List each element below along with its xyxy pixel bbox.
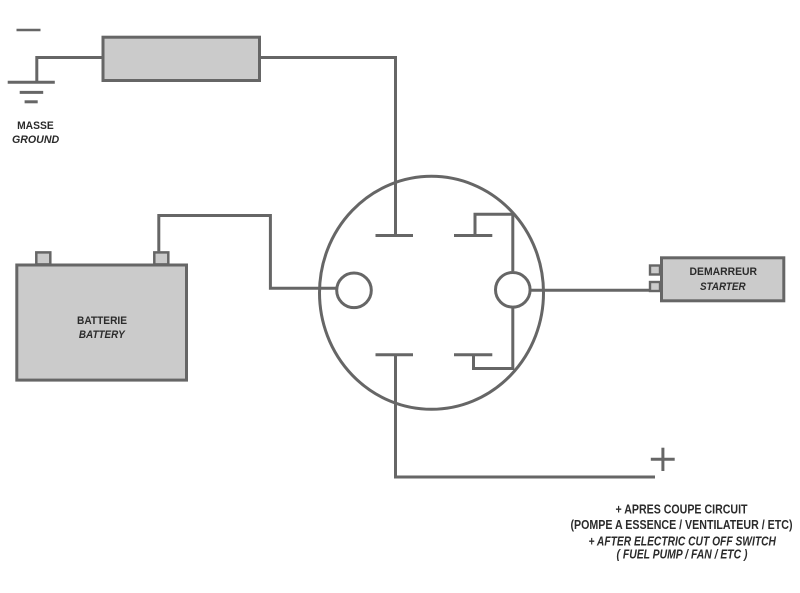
svg-text:STARTER: STARTER <box>700 281 746 293</box>
switch SW1 body (circular battery cut-off switch) <box>320 176 544 409</box>
svg-text:MASSE: MASSE <box>17 120 54 132</box>
svg-text:+ APRES COUPE CIRCUIT: + APRES COUPE CIRCUIT <box>616 502 748 516</box>
label: + APRES COUPE CIRCUIT block <box>571 502 793 561</box>
starter M1 body <box>662 258 784 301</box>
svg-text:BATTERY: BATTERY <box>79 329 126 341</box>
battery negative terminal <box>36 252 50 264</box>
svg-text:( FUEL PUMP / FAN / ETC ): ( FUEL PUMP / FAN / ETC ) <box>617 547 748 561</box>
wire: battery positive to switch left post <box>159 216 337 289</box>
battery positive terminal <box>154 252 168 264</box>
fuse block <box>103 37 260 80</box>
switch right post <box>496 273 531 308</box>
label MASSE / GROUND <box>12 120 59 146</box>
label DEMARREUR / STARTER <box>690 266 758 293</box>
svg-text:DEMARREUR: DEMARREUR <box>690 266 758 278</box>
ground symbol <box>8 82 55 102</box>
switch terminal: top-right prong linked to right post <box>454 214 513 271</box>
wire: fuse block to switch top-left terminal <box>259 58 396 235</box>
wire: switch bottom-left terminal to + output <box>396 355 656 477</box>
svg-text:(POMPE A ESSENCE / VENTILATEUR: (POMPE A ESSENCE / VENTILATEUR / ETC) <box>571 518 793 532</box>
label BATTERIE / BATTERY <box>77 315 127 341</box>
switch terminal: bottom-left prong bar <box>376 353 414 356</box>
svg-text:GROUND: GROUND <box>12 134 59 146</box>
svg-text:+ AFTER ELECTRIC CUT OFF SWITC: + AFTER ELECTRIC CUT OFF SWITCH <box>588 535 776 549</box>
svg-text:BATTERIE: BATTERIE <box>77 315 127 327</box>
starter terminal upper <box>650 266 660 275</box>
minus sign label above ground wire <box>17 29 41 32</box>
switch terminal: top-left prong bar <box>376 234 414 237</box>
switch left post <box>337 273 372 308</box>
plus symbol (+ output node) <box>651 448 675 471</box>
wire: ground to fuse block <box>37 58 103 83</box>
battery BAT1 body <box>17 265 187 380</box>
starter terminal lower <box>650 282 660 291</box>
wire: switch right post to starter <box>530 289 650 292</box>
switch terminal: bottom-right prong linked to right post <box>454 309 513 369</box>
